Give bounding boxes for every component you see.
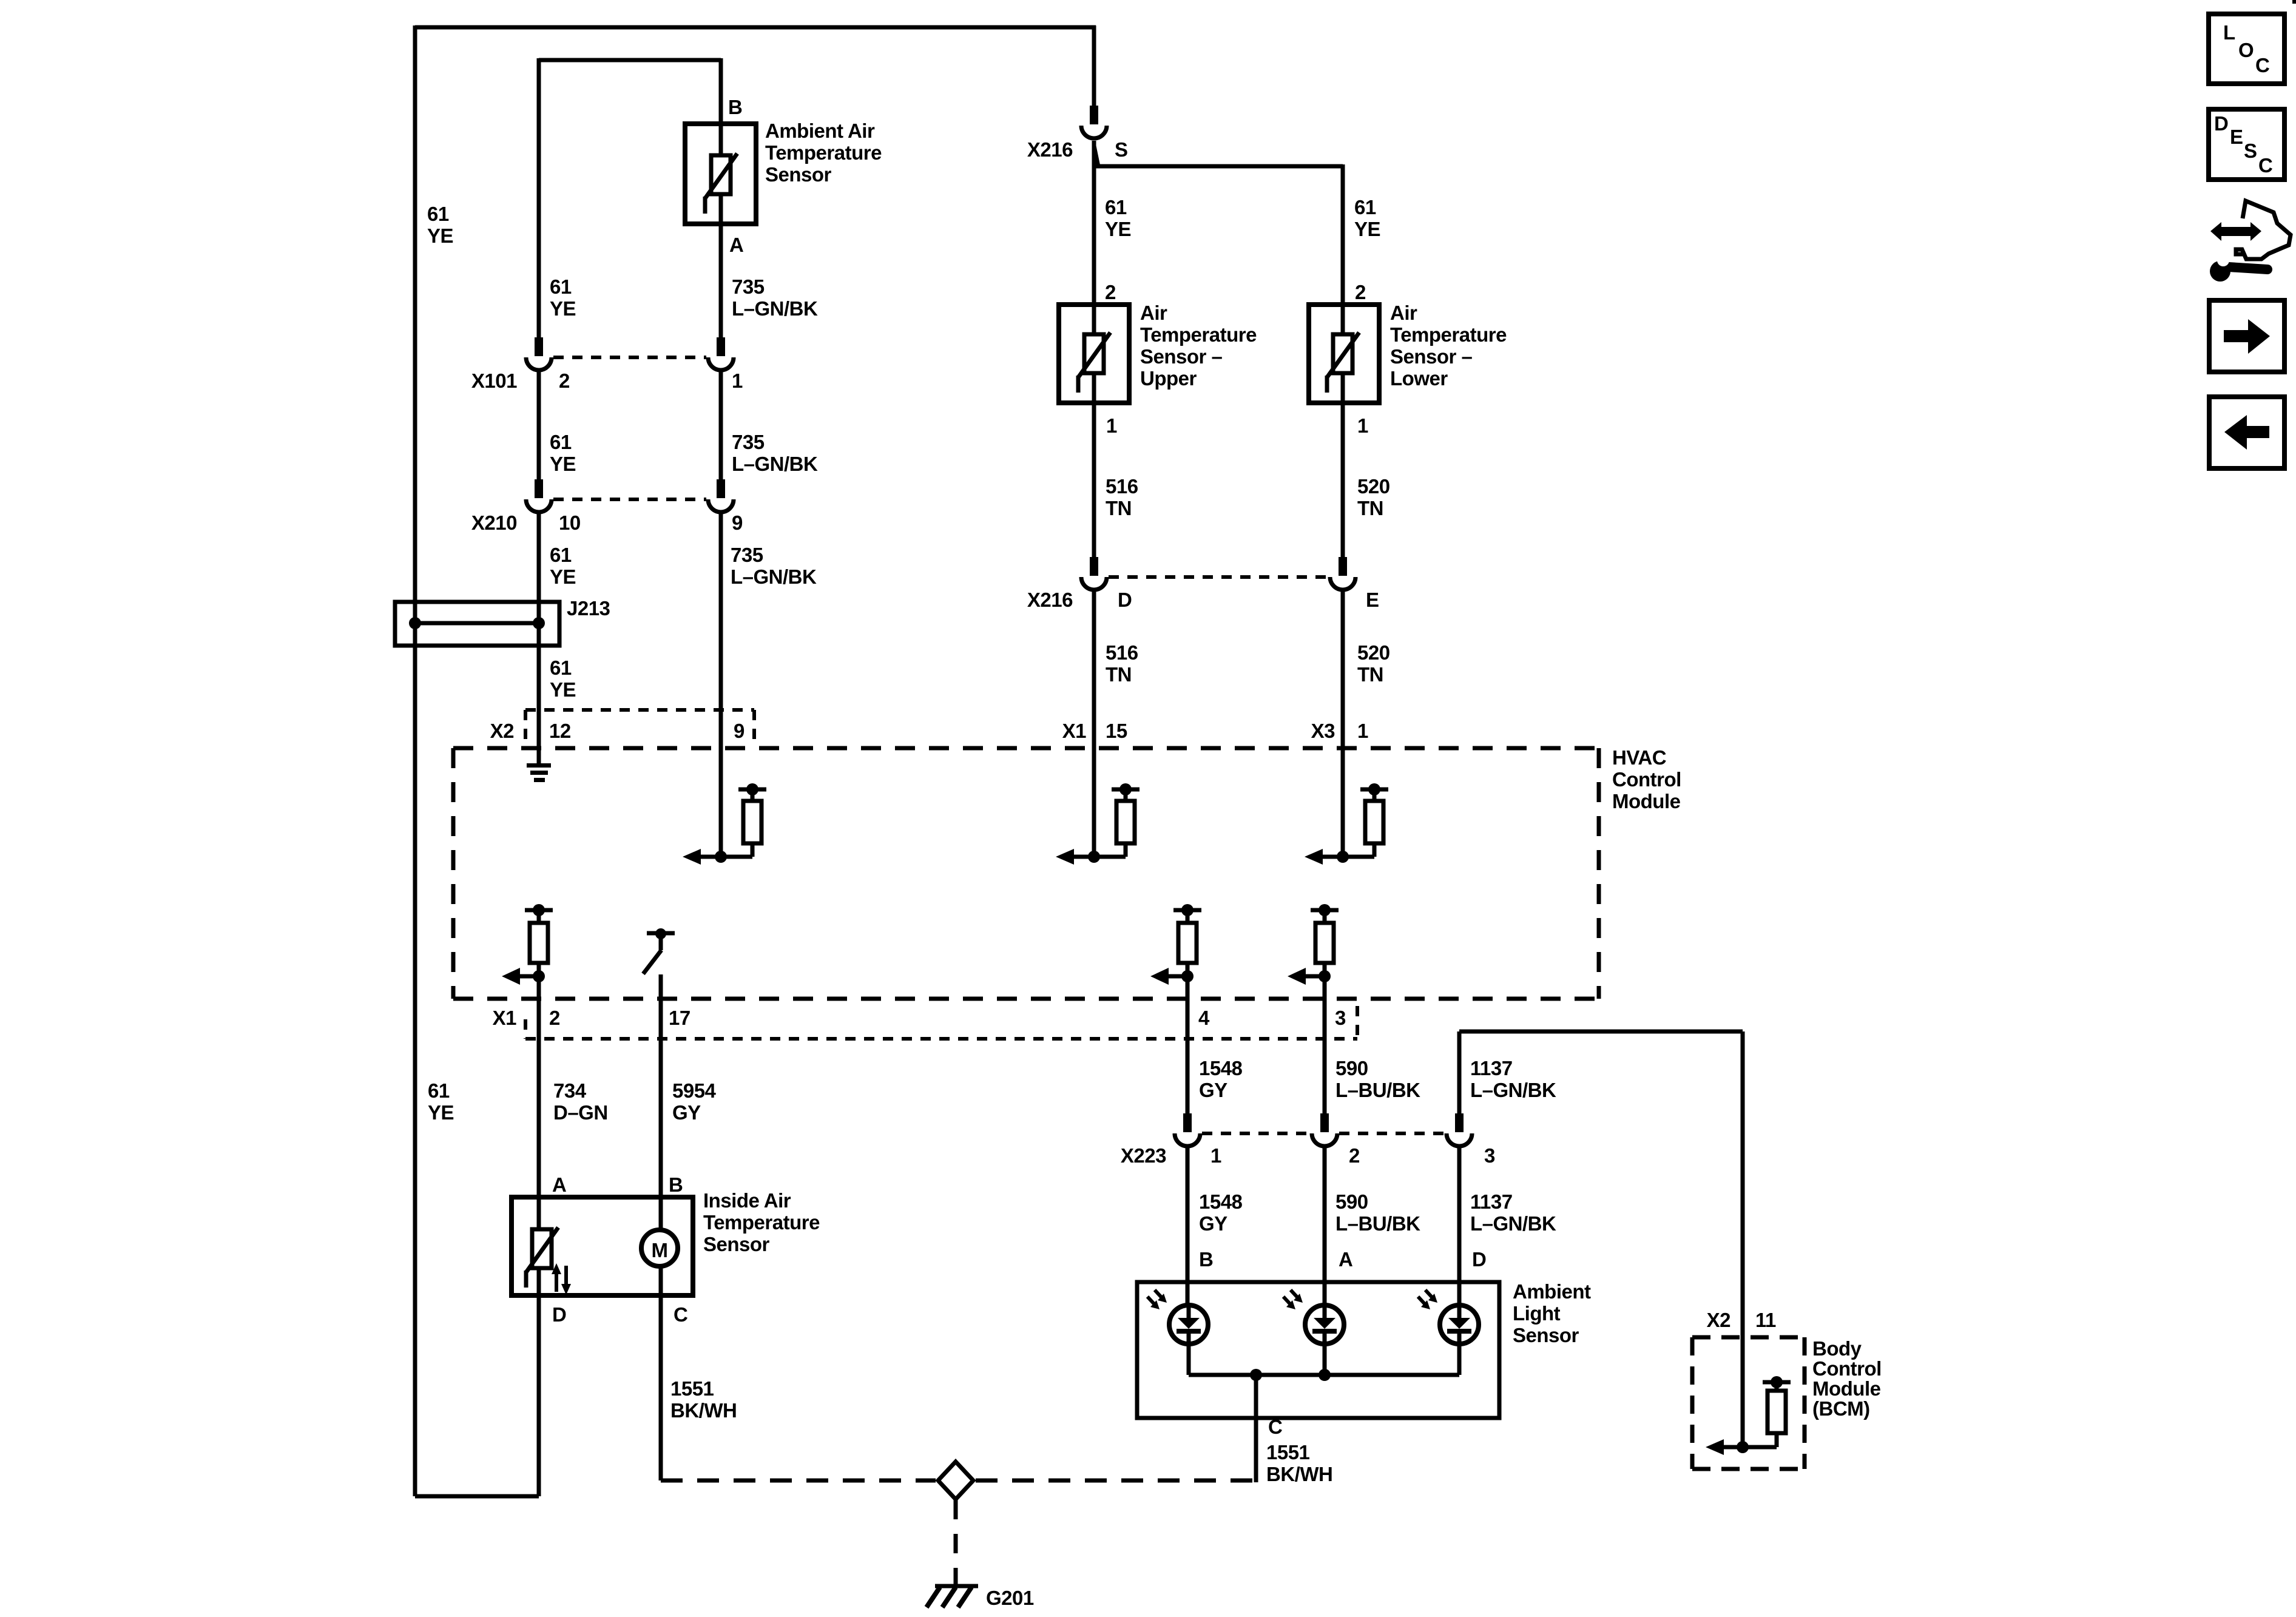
photodiode 2 of Ambient Light Sensor [1305, 1305, 1344, 1344]
svg-text:Lower: Lower [1390, 367, 1448, 390]
wire into lower thermistor [1341, 305, 1345, 334]
svg-text:590: 590 [1335, 1190, 1368, 1213]
photodiode 3 of Ambient Light Sensor [1440, 1305, 1479, 1344]
svg-text:L: L [2223, 21, 2235, 44]
svg-text:520: 520 [1357, 475, 1390, 498]
svg-text:Light: Light [1513, 1302, 1561, 1325]
svg-text:61: 61 [550, 657, 572, 679]
forward arrow [2224, 319, 2270, 354]
svg-text:735: 735 [731, 544, 763, 566]
svg-text:Temperature: Temperature [703, 1211, 820, 1234]
svg-text:9: 9 [734, 720, 745, 742]
ground symbol inside HVAC module at X2 pin 12 [537, 748, 541, 766]
svg-text:Sensor: Sensor [1513, 1324, 1579, 1346]
svg-text:735: 735 [732, 431, 765, 453]
J213 junction on inner 61 YE wire [533, 617, 545, 629]
svg-text:C: C [2255, 54, 2269, 76]
wire 1137 L-GN/BK horizontal run to BCM [1459, 1030, 1743, 1034]
sidebar icon connector-view double arrow [2210, 222, 2261, 241]
J213 junction on outer 61 YE wire [409, 617, 421, 629]
svg-text:61: 61 [427, 203, 449, 225]
svg-text:516: 516 [1106, 641, 1138, 664]
wire from thermistor to pin A [719, 194, 723, 224]
wire 5954 GY from switch to X1 pin 17 and Inside sensor pin B [659, 974, 663, 1197]
Body Control Module dashed box [1692, 1335, 1805, 1340]
svg-text:BK/WH: BK/WH [670, 1399, 737, 1422]
junction of pin C takeoff on bus [1250, 1369, 1262, 1381]
svg-text:E: E [2230, 126, 2243, 148]
pull-up resistor and signal arrow at X3 pin 1 (520 input) [1360, 788, 1388, 792]
svg-text:O: O [2238, 39, 2254, 61]
wire 61 YE inner loop top (to Ambient Air Temperature Sensor pin B) [539, 58, 721, 62]
splice diamond S-connection on ground wire [938, 1462, 973, 1499]
wire 61 YE top bus from outer-left loop to X216 pin S [415, 25, 1096, 30]
connector X101 pin 1 [717, 337, 725, 356]
svg-text:Module: Module [1612, 790, 1681, 812]
svg-text:61: 61 [550, 544, 572, 566]
wire 61 YE X210 down through J213 to X2 pin 12 [537, 512, 541, 765]
svg-text:Body: Body [1812, 1337, 1862, 1360]
svg-text:590: 590 [1335, 1057, 1368, 1079]
wire 61 YE outer-left vertical run [413, 25, 417, 1496]
svg-text:TN: TN [1357, 497, 1383, 519]
svg-text:L–GN/BK: L–GN/BK [1470, 1212, 1556, 1235]
Air Temperature Sensor - Lower box [1309, 305, 1379, 403]
pull-up resistor and signal arrow at X1 pin 15 (516 input) [1112, 788, 1140, 792]
svg-text:2: 2 [1105, 281, 1116, 303]
svg-text:A: A [729, 234, 743, 256]
wire 734 D-GN from resistor junction to X1 pin 2 and Inside sensor pin A [537, 976, 541, 1197]
svg-text:Air: Air [1140, 302, 1167, 324]
wire drop from top bus to X216 pin S [1092, 25, 1096, 106]
svg-text:Sensor: Sensor [765, 163, 832, 186]
svg-text:3: 3 [1335, 1007, 1346, 1029]
svg-text:X216: X216 [1027, 589, 1073, 611]
wire from light sensor bus to pin C [1254, 1375, 1258, 1482]
svg-text:YE: YE [1354, 218, 1380, 240]
thermistor element of Inside Air Temperature Sensor [532, 1229, 552, 1268]
wire 1548 GY from resistor junction to X1 pin 4 [1186, 976, 1190, 1115]
svg-text:TN: TN [1357, 663, 1383, 686]
svg-text:J213: J213 [567, 597, 610, 619]
svg-text:L–GN/BK: L–GN/BK [732, 453, 818, 475]
Air Temperature Sensor - Upper box [1059, 305, 1129, 403]
svg-text:9: 9 [732, 511, 743, 534]
svg-text:L–BU/BK: L–BU/BK [1335, 1212, 1420, 1235]
wire inside sensor to thermistor [719, 124, 723, 155]
svg-text:1: 1 [1106, 414, 1117, 437]
svg-text:S: S [1115, 138, 1128, 161]
wire 735 L-GN/BK X101 to X210 [719, 370, 723, 479]
wire 61 YE branch to Air Temperature Sensor - Lower [1096, 164, 1343, 169]
svg-text:Upper: Upper [1140, 367, 1197, 390]
wire 61 YE inner loop left leg down to X101 pin 2 [537, 58, 541, 337]
wire 1548 GY from X223 pin 1 to light sensor pin B [1186, 1146, 1190, 1306]
svg-text:G201: G201 [986, 1587, 1034, 1609]
svg-text:B: B [728, 96, 742, 118]
svg-text:B: B [1199, 1248, 1213, 1271]
svg-text:X2: X2 [1707, 1309, 1731, 1331]
wire 520 TN from X216 pin E to HVAC X3 pin 1 [1341, 590, 1345, 857]
wire 61 YE down to Air Temperature Sensor - Upper pin 2 [1092, 141, 1096, 305]
wire splice kink below X216 S [1094, 144, 1098, 165]
thermistor element of Air Temperature Sensor - Upper [1084, 334, 1104, 373]
pull-up resistor and signal arrow at X2 pin 9 (735 input) [738, 788, 766, 792]
sidebar icon connector outline [2236, 201, 2291, 259]
HVAC Control Module dashed box top edge [453, 746, 1599, 751]
svg-text:4: 4 [1198, 1007, 1210, 1029]
svg-text:Inside Air: Inside Air [703, 1189, 791, 1212]
svg-text:X210: X210 [471, 511, 517, 534]
wire 1551 BK/WH from Inside sensor pin C down [659, 1295, 663, 1480]
svg-text:1: 1 [1357, 720, 1368, 742]
svg-text:X2: X2 [490, 720, 515, 742]
svg-text:2: 2 [1349, 1144, 1360, 1167]
svg-text:YE: YE [550, 678, 576, 701]
svg-text:D: D [552, 1303, 566, 1326]
svg-text:Temperature: Temperature [1140, 323, 1257, 346]
svg-text:516: 516 [1106, 475, 1138, 498]
dashed ground distribution wire 1551 BK/WH [661, 1479, 936, 1483]
svg-text:YE: YE [550, 297, 576, 320]
svg-text:11: 11 [1755, 1309, 1776, 1331]
wire 590 L-BU/BK from X223 pin 2 to light sensor pin A [1323, 1146, 1327, 1306]
svg-text:L–GN/BK: L–GN/BK [1470, 1079, 1556, 1101]
junction of photodiode 2 on bus [1319, 1369, 1331, 1381]
reference resistor and signal arrow above X1 pin 4 (1548) [1173, 908, 1201, 913]
svg-text:D: D [1472, 1248, 1486, 1271]
svg-text:1551: 1551 [670, 1377, 714, 1400]
sidebar icon wrench [2229, 267, 2267, 269]
wire to Ambient Air Temperature Sensor pin B [719, 58, 723, 126]
Ambient Light Sensor box [1137, 1282, 1499, 1418]
svg-text:C: C [674, 1303, 687, 1326]
svg-text:YE: YE [550, 565, 576, 588]
svg-text:17: 17 [669, 1007, 690, 1029]
connector X210 pin 9 [717, 479, 725, 498]
svg-text:X223: X223 [1121, 1144, 1166, 1167]
svg-text:C: C [2258, 154, 2272, 177]
dashed drop to ground G201 [954, 1500, 958, 1585]
svg-text:Control: Control [1812, 1357, 1882, 1380]
svg-text:1551: 1551 [1266, 1441, 1310, 1463]
svg-text:15: 15 [1106, 720, 1127, 742]
connector X101 pin 2 [535, 337, 543, 356]
reference resistor and signal arrow above X1 pin 2 (734 output) [525, 908, 553, 913]
svg-text:2: 2 [1355, 281, 1366, 303]
wire into upper thermistor [1092, 305, 1096, 334]
svg-text:HVAC: HVAC [1612, 746, 1666, 769]
svg-text:GY: GY [672, 1101, 701, 1124]
connector X2 dotted outline (HVAC control module) [525, 708, 754, 712]
connector X216 pin E [1339, 557, 1347, 576]
svg-text:GY: GY [1199, 1212, 1227, 1235]
svg-text:X216: X216 [1027, 138, 1073, 161]
aspirator motor M of Inside Air Temperature Sensor [641, 1230, 678, 1266]
svg-text:GY: GY [1199, 1079, 1227, 1101]
wire 516 TN from X216 pin D to HVAC X1 pin 15 [1092, 590, 1096, 857]
svg-text:TN: TN [1106, 497, 1132, 519]
svg-text:1548: 1548 [1199, 1190, 1243, 1213]
svg-text:Temperature: Temperature [1390, 323, 1507, 346]
svg-text:(BCM): (BCM) [1812, 1397, 1870, 1420]
svg-text:BK/WH: BK/WH [1266, 1463, 1332, 1485]
svg-text:D: D [1118, 589, 1132, 611]
reference resistor and signal arrow inside BCM [1763, 1380, 1791, 1385]
svg-text:M: M [652, 1239, 668, 1261]
connector X216 (D/E) dotted tie line [1109, 575, 1328, 579]
svg-text:10: 10 [559, 511, 581, 534]
connector X216 pin D [1090, 557, 1098, 576]
wire 520 TN from lower sensor pin 1 to X216 pin E [1341, 403, 1345, 558]
svg-text:734: 734 [553, 1079, 587, 1102]
Ambient Air Temperature Sensor box [685, 124, 756, 224]
internal common bus of Ambient Light Sensor [1187, 1343, 1191, 1375]
reference resistor and signal arrow above X1 pin 3 (590) [1311, 908, 1339, 913]
svg-text:C: C [1268, 1416, 1282, 1438]
svg-text:2: 2 [549, 1007, 560, 1029]
sidebar icon back arrow box [2209, 397, 2284, 468]
Inside Air Temperature Sensor box [512, 1197, 693, 1295]
svg-text:D: D [2214, 112, 2228, 135]
connector X210 dotted tie line [553, 498, 706, 501]
svg-text:YE: YE [1105, 218, 1131, 240]
svg-text:YE: YE [550, 453, 576, 475]
svg-text:Ambient: Ambient [1513, 1280, 1591, 1303]
sidebar icon LOC box [2209, 14, 2284, 84]
sidebar icon forward arrow box [2209, 300, 2284, 372]
svg-text:1137: 1137 [1470, 1190, 1513, 1213]
svg-text:YE: YE [427, 224, 453, 247]
wire 1137 L-GN/BK drop to BCM X2 pin 11 [1741, 1031, 1745, 1447]
switch element above X1 pin 17 (5954 control) [647, 931, 675, 936]
wire out of upper thermistor [1092, 373, 1096, 403]
svg-text:1548: 1548 [1199, 1057, 1243, 1079]
svg-text:TN: TN [1106, 663, 1132, 686]
HVAC Control Module dashed box bottom edge [453, 997, 1599, 1001]
svg-text:L–BU/BK: L–BU/BK [1335, 1079, 1420, 1101]
svg-text:D–GN: D–GN [553, 1101, 608, 1124]
svg-text:Sensor –: Sensor – [1390, 345, 1473, 368]
thermistor element of Ambient Air Temperature Sensor [711, 155, 731, 194]
wire 516 TN from upper sensor pin 1 to X216 pin D [1092, 403, 1096, 558]
photodiode 1 of Ambient Light Sensor [1169, 1305, 1208, 1344]
wire 61 YE X101 to X210 [537, 370, 541, 479]
svg-text:735: 735 [732, 275, 765, 298]
svg-text:1137: 1137 [1470, 1057, 1513, 1079]
svg-text:Temperature: Temperature [765, 141, 882, 164]
svg-text:12: 12 [549, 720, 571, 742]
svg-text:61: 61 [1105, 196, 1127, 218]
svg-text:X3: X3 [1311, 720, 1335, 742]
wire 735 L-GN/BK from Ambient sensor pin A to X101 pin 1 [719, 224, 723, 337]
svg-text:Sensor: Sensor [703, 1233, 770, 1255]
svg-text:Ambient Air: Ambient Air [765, 120, 875, 142]
svg-text:L–GN/BK: L–GN/BK [731, 565, 817, 588]
svg-text:2: 2 [559, 370, 570, 392]
svg-text:Module: Module [1812, 1377, 1881, 1400]
splice pack J213 box [395, 602, 559, 646]
svg-text:X1: X1 [493, 1007, 517, 1029]
svg-text:S: S [2244, 140, 2257, 162]
svg-text:1: 1 [1210, 1144, 1221, 1167]
chassis ground symbol G201 [935, 1584, 978, 1588]
svg-text:X1: X1 [1062, 720, 1087, 742]
svg-text:5954: 5954 [672, 1079, 717, 1102]
svg-text:Control: Control [1612, 768, 1681, 791]
connector X1 (lower) dotted outline [525, 1037, 1357, 1041]
aspirator airflow arrows of Inside Air Temperature Sensor [555, 1273, 558, 1292]
wire 735 L-GN/BK X210 down to HVAC X2 pin 9 [719, 512, 723, 857]
svg-text:A: A [552, 1173, 566, 1196]
wire 5954 into motor [659, 1197, 663, 1230]
wire out of lower thermistor [1341, 373, 1345, 403]
svg-text:3: 3 [1484, 1144, 1495, 1167]
HVAC Control Module dashed box left edge [451, 748, 456, 999]
thermistor element of Air Temperature Sensor - Lower [1333, 334, 1352, 373]
wire 1137 L-GN/BK from X223 pin 3 to light sensor pin D [1457, 1146, 1462, 1306]
wire 590 L-BU/BK from resistor junction to X1 pin 3 [1323, 976, 1327, 1115]
connector X101 dotted tie line [553, 356, 706, 359]
svg-text:A: A [1339, 1248, 1352, 1271]
connector X223 pin 2 [1320, 1113, 1329, 1132]
connector X210 pin 10 [535, 479, 543, 498]
svg-text:520: 520 [1357, 641, 1390, 664]
svg-text:Sensor –: Sensor – [1140, 345, 1223, 368]
svg-text:61: 61 [428, 1079, 450, 1102]
wire 61 YE bottom U to Inside Air Temperature Sensor pin D [415, 1494, 539, 1499]
svg-text:61: 61 [550, 431, 572, 453]
svg-text:YE: YE [428, 1101, 454, 1124]
svg-text:61: 61 [550, 275, 572, 298]
connector X216 pin S [1090, 106, 1098, 124]
wire 1137 L-GN/BK drop to X223 pin 3 [1457, 1031, 1462, 1115]
sidebar icon DESC box [2209, 109, 2284, 180]
connector X223 pin 3 [1455, 1113, 1464, 1132]
HVAC Control Module dashed box right edge [1597, 748, 1601, 999]
back arrow [2224, 415, 2269, 450]
svg-text:1: 1 [1357, 414, 1368, 437]
svg-text:X101: X101 [471, 370, 517, 392]
svg-text:E: E [1366, 589, 1379, 611]
svg-text:61: 61 [1354, 196, 1376, 218]
connector X223 pin 1 [1183, 1113, 1192, 1132]
J213 internal bus [415, 621, 539, 626]
wire thermistor to pin D [537, 1268, 541, 1295]
wire inside sensor to thermistor [537, 1197, 541, 1229]
wire motor to pin C [659, 1266, 663, 1295]
connector X223 dotted tie lines [1202, 1132, 1310, 1135]
svg-text:L–GN/BK: L–GN/BK [732, 297, 818, 320]
svg-text:Air: Air [1390, 302, 1417, 324]
svg-text:1: 1 [732, 370, 743, 392]
svg-text:B: B [669, 1173, 683, 1196]
page corner mark [2292, 0, 2296, 4]
